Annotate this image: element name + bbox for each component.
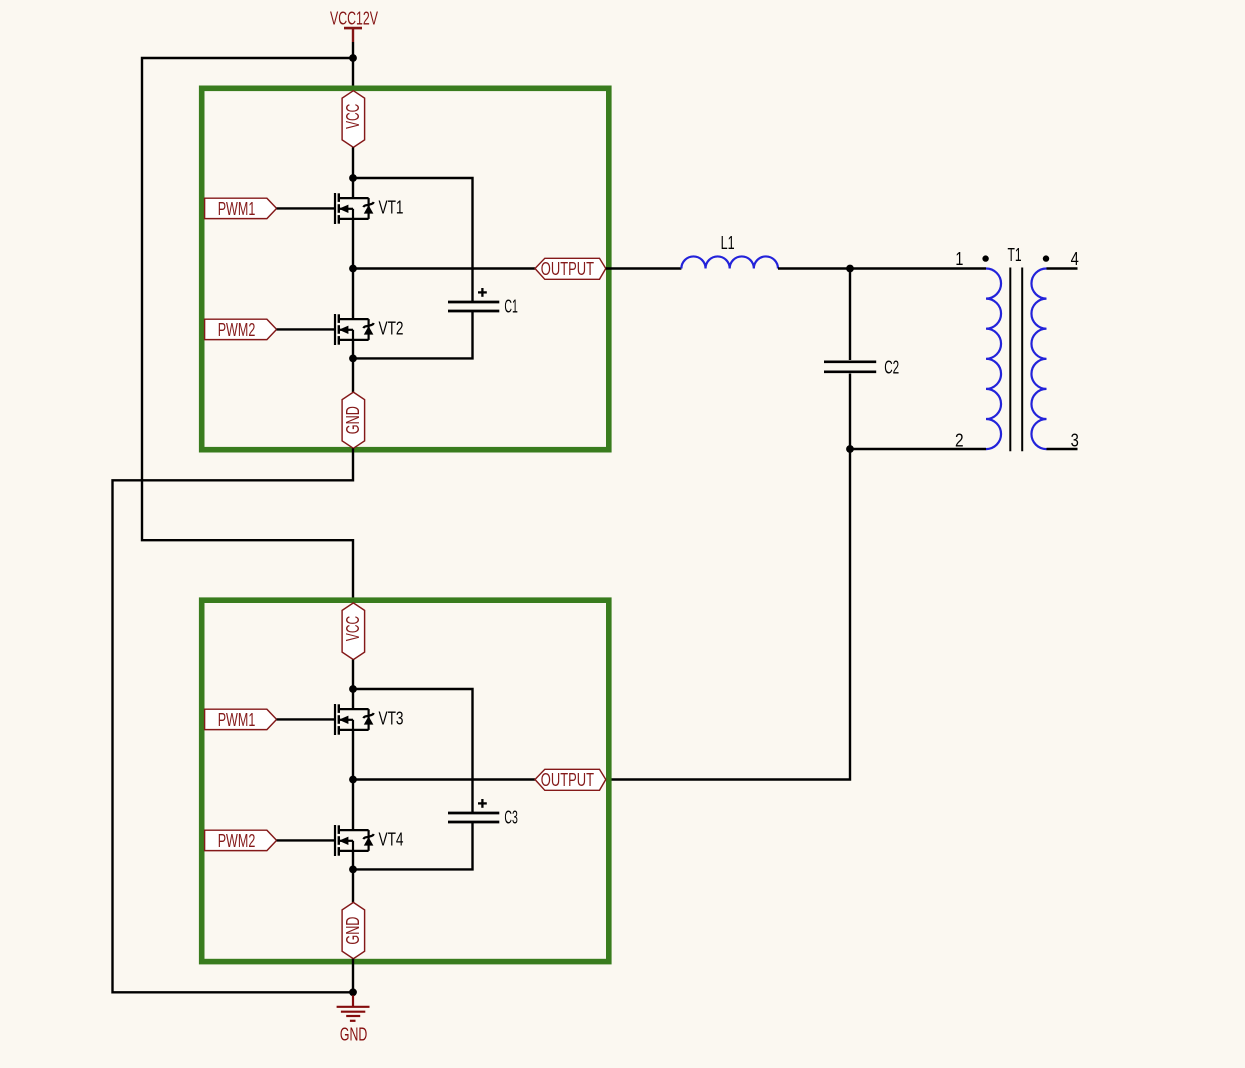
sheet box 1 (green) — [202, 88, 609, 449]
svg-text:VCC: VCC — [343, 616, 363, 641]
svg-text:T1: T1 — [1008, 245, 1022, 265]
wire GND port box1 to left gnd rail — [113, 448, 354, 992]
svg-text:3: 3 — [1071, 431, 1079, 451]
wire VT2 drain — [352, 269, 354, 320]
wire PWM1 to VT3 gate — [277, 718, 335, 720]
pin 4 wire — [1047, 267, 1078, 269]
power symbol VCC12V — [330, 8, 378, 42]
wire VT3 drain stub — [352, 689, 354, 710]
sheet port GND (box1) — [342, 392, 365, 448]
wire output junction to OUTPUT port — [353, 267, 535, 269]
svg-text:OUTPUT: OUTPUT — [541, 770, 594, 790]
pin 3 wire — [1047, 448, 1078, 450]
sheet port GND (box2) — [342, 902, 365, 958]
junction C2 top — [846, 265, 854, 273]
svg-text:C2: C2 — [884, 357, 899, 377]
capacitor C2 — [824, 357, 899, 377]
svg-text:4: 4 — [1071, 249, 1079, 269]
wire C3 bottom to source junction — [353, 822, 473, 869]
junction output node box1 — [349, 265, 357, 273]
svg-text:GND: GND — [343, 917, 363, 945]
svg-text:VT3: VT3 — [379, 709, 404, 729]
ground symbol GND — [337, 995, 370, 1044]
wire VCC port to drain junction — [352, 147, 354, 178]
inductor L1 — [681, 233, 778, 269]
svg-text:PWM1: PWM1 — [218, 710, 256, 730]
sheet port VCC (box1) — [342, 91, 365, 148]
secondary winding — [1031, 269, 1046, 450]
sheet port PWM2 (box1) — [205, 319, 277, 340]
wire VT2 source to junction — [352, 340, 354, 359]
junction VT2 source — [349, 355, 357, 363]
wire junction to transformer pin2 — [850, 448, 986, 450]
sheet port OUTPUT (box1) — [535, 258, 606, 279]
wire C2 node down to OUTPUT2 — [606, 449, 850, 780]
svg-text:C3: C3 — [504, 808, 518, 828]
svg-text:GND: GND — [340, 1024, 367, 1044]
sheet box 2 (green) — [202, 600, 609, 961]
wire OUTPUT1 to L1 — [606, 267, 682, 269]
core — [1009, 268, 1011, 452]
svg-text:OUTPUT: OUTPUT — [541, 259, 594, 279]
wire VT4 drain — [352, 780, 354, 831]
wire PWM2 to VT2 gate — [277, 328, 335, 330]
wire VCC rail to lower sheet VCC — [142, 58, 353, 603]
transistor VT2 — [335, 314, 374, 345]
wire output junction to OUTPUT port (box2) — [353, 778, 535, 780]
junction top VCC — [349, 54, 357, 62]
wire source junction to GND port (box1) — [352, 358, 354, 392]
wire junction to transformer pin1 — [850, 267, 986, 269]
capacitor C1 — [448, 288, 518, 317]
polarity dot primary — [982, 255, 988, 261]
wire C2 bottom — [849, 374, 851, 450]
transistor VT1 — [335, 193, 374, 224]
sheet port PWM1 (box2) — [205, 709, 277, 730]
svg-text:GND: GND — [343, 406, 363, 434]
wire VT1 source to output junction — [352, 219, 354, 269]
svg-text:VCC: VCC — [343, 104, 363, 129]
svg-text:PWM2: PWM2 — [218, 320, 256, 340]
wire VT1 drain stub — [352, 178, 354, 199]
wire VCC12V to junction — [352, 42, 354, 58]
junction C2 bottom — [846, 445, 854, 453]
wire GND port box2 to gnd junction — [352, 959, 354, 993]
svg-text:PWM2: PWM2 — [218, 831, 256, 851]
transformer T1 — [955, 245, 1079, 451]
sheet port VCC (box2) — [342, 603, 365, 660]
wire drain junction to C3 top — [353, 689, 473, 813]
transistor VT3 — [335, 704, 374, 735]
junction GND — [349, 988, 357, 996]
junction VT4 source — [349, 866, 357, 874]
wire C1 bottom to source junction — [353, 311, 473, 358]
svg-text:VT1: VT1 — [379, 198, 404, 218]
wire C2 top — [849, 269, 851, 361]
sheet port OUTPUT (box2) — [535, 769, 606, 790]
wire PWM2 to VT4 gate — [277, 839, 335, 841]
wire VT4 source to junction — [352, 851, 354, 870]
wire PWM1 to VT1 gate — [277, 207, 335, 209]
svg-text:VT4: VT4 — [379, 830, 404, 850]
sheet port PWM2 (box2) — [205, 830, 277, 851]
wire L1 to C2 node — [778, 267, 850, 269]
wire source junction to GND port (box2) — [352, 869, 354, 902]
junction output node box2 — [349, 776, 357, 784]
wire junction to VCC port box1 — [352, 58, 354, 92]
transistor VT4 — [335, 825, 374, 856]
primary winding — [986, 269, 1001, 450]
svg-text:PWM1: PWM1 — [218, 199, 256, 219]
svg-text:C1: C1 — [504, 297, 518, 317]
svg-text:2: 2 — [955, 431, 964, 451]
wire VCC port2 to drain junction — [352, 660, 354, 689]
wire VT3 source to output junction — [352, 730, 354, 780]
capacitor C3 — [448, 799, 518, 828]
junction VT1 drain — [349, 174, 357, 182]
junction VT3 drain — [349, 685, 357, 693]
wire drain junction to C1 top — [353, 178, 473, 302]
svg-text:L1: L1 — [721, 233, 735, 253]
polarity dot secondary — [1043, 255, 1049, 261]
sheet port PWM1 (box1) — [205, 198, 277, 219]
svg-text:1: 1 — [955, 249, 963, 269]
svg-text:VT2: VT2 — [379, 319, 404, 339]
svg-text:VCC12V: VCC12V — [330, 8, 378, 28]
